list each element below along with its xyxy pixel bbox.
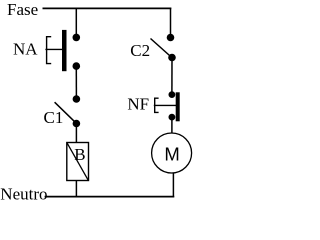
pushbutton NF upper contact dot (169, 91, 176, 98)
pushbutton NF moving-contact bar (176, 92, 180, 121)
pushbutton NA actuator rod (45, 48, 62, 50)
pushbutton NF actuator rod (154, 104, 176, 106)
wire Neutro bus (bottom horizontal) (45, 196, 175, 198)
svg-text:M: M (164, 143, 179, 164)
wire NA to C1 (75, 66, 77, 99)
contact C2 lower dot (168, 54, 176, 62)
svg-text:Neutro: Neutro (0, 185, 47, 204)
contact C2 upper dot (167, 34, 175, 42)
wire coil B to Neutro bus (75, 181, 77, 197)
contact C1 upper dot (73, 95, 81, 103)
motor M circle (152, 133, 192, 173)
coil B box (67, 143, 89, 181)
wire C1 to coil B (75, 124, 77, 144)
wire C2 to NF (171, 58, 173, 95)
wire right branch drop from Fase bus corner (170, 8, 172, 38)
pushbutton NF lower contact dot (169, 114, 176, 121)
pushbutton NF actuator bracket (155, 98, 159, 112)
svg-text:Fase: Fase (7, 0, 38, 19)
wire motor to Neutro bus (172, 173, 174, 196)
pushbutton NA lower contact dot (73, 62, 81, 70)
wire Fase bus (top horizontal) (43, 7, 172, 9)
wire left branch drop from Fase bus (75, 8, 77, 37)
contact C2 blade (151, 39, 172, 58)
pushbutton NA upper contact dot (73, 34, 81, 42)
contact C1 lower dot (73, 120, 81, 128)
svg-text:C2: C2 (130, 41, 150, 60)
svg-text:C1: C1 (44, 108, 64, 127)
svg-text:B: B (74, 145, 85, 164)
coil B diagonal (67, 143, 88, 180)
svg-text:NF: NF (127, 94, 149, 113)
pushbutton NA moving-contact bar (62, 30, 67, 71)
pushbutton NA actuator bracket (47, 37, 52, 64)
contact C1 blade (55, 102, 77, 123)
svg-text:NA: NA (13, 40, 38, 59)
wire NF to motor (171, 117, 173, 133)
